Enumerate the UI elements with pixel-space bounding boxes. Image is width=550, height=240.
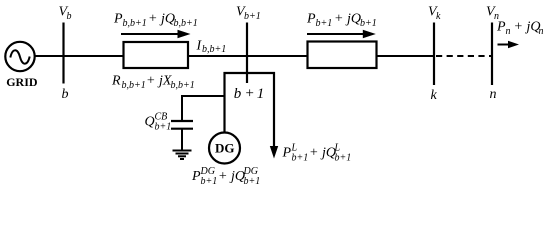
capacitor CB plates bbox=[171, 121, 193, 129]
svg-text:b+1: b+1 bbox=[316, 18, 333, 29]
svg-text:b: b bbox=[62, 87, 69, 102]
DG source (distributed generator) bbox=[209, 133, 240, 164]
svg-text:k: k bbox=[431, 88, 438, 103]
svg-text:R: R bbox=[111, 74, 121, 89]
svg-text:b: b bbox=[234, 86, 242, 102]
power flow arrow P_b,b+1 bbox=[121, 30, 191, 39]
svg-text:b+1: b+1 bbox=[292, 153, 309, 164]
label V_n bbox=[486, 5, 499, 22]
svg-text:P: P bbox=[282, 146, 292, 161]
svg-text:b+1: b+1 bbox=[335, 153, 352, 164]
svg-text:k: k bbox=[436, 11, 441, 22]
svg-text:n: n bbox=[506, 26, 511, 37]
wire: left drop from bar to DG bbox=[223, 72, 225, 132]
label I_b,b+1 (current) bbox=[196, 39, 227, 56]
svg-text:+: + bbox=[245, 86, 255, 102]
wire: grid to impedance block 1 (through bus b) bbox=[35, 55, 124, 57]
label P_b,b+1 + jQ_b,b+1 bbox=[113, 12, 198, 30]
svg-text:+ jQ: + jQ bbox=[218, 169, 245, 184]
svg-text:P: P bbox=[306, 12, 316, 27]
label P_L_b+1 + jQ_L_b+1 bbox=[282, 143, 352, 164]
connection bar at bus b+1 bbox=[224, 72, 276, 74]
svg-text:b,b+1: b,b+1 bbox=[174, 18, 198, 29]
svg-text:+ jQ: + jQ bbox=[309, 146, 336, 161]
svg-text:b,b+1: b,b+1 bbox=[171, 80, 195, 91]
svg-text:b+1: b+1 bbox=[244, 176, 261, 187]
svg-text:b: b bbox=[67, 11, 72, 22]
label V_b+1 bbox=[236, 5, 261, 22]
svg-text:b+1: b+1 bbox=[201, 176, 218, 187]
svg-text:P: P bbox=[113, 12, 123, 27]
impedance block 1 (line b to b+1) bbox=[124, 42, 189, 68]
svg-text:+ jQ: + jQ bbox=[148, 12, 175, 27]
svg-text:DG: DG bbox=[215, 140, 235, 155]
wire: block2 to bus k bbox=[377, 55, 435, 57]
svg-text:b,b+1: b,b+1 bbox=[123, 18, 147, 29]
svg-text:GRID: GRID bbox=[6, 75, 38, 89]
label P_n + jQ_n bbox=[496, 20, 544, 38]
label V_b bbox=[59, 5, 72, 22]
label Q_CB_b+1 bbox=[145, 112, 172, 133]
dashed wire: bus k to bus n bbox=[436, 55, 491, 57]
wire: capacitor branch bbox=[182, 96, 225, 121]
svg-text:b,b+1: b,b+1 bbox=[122, 80, 146, 91]
svg-text:+ jQ: + jQ bbox=[514, 20, 541, 35]
wire: block1 to block2 (through bus b+1) bbox=[188, 55, 308, 57]
AC source GRID (circle with sine) bbox=[5, 42, 34, 71]
wire: capacitor to ground bbox=[181, 129, 183, 151]
impedance block 2 (line b+1 onwards) bbox=[308, 42, 377, 69]
svg-text:b+1: b+1 bbox=[360, 18, 377, 29]
svg-text:b+1: b+1 bbox=[244, 11, 261, 22]
svg-text:P: P bbox=[191, 169, 201, 184]
svg-text:b,b+1: b,b+1 bbox=[202, 44, 226, 55]
svg-text:Q: Q bbox=[145, 115, 155, 130]
load arrow at bus b+1 bbox=[270, 72, 278, 159]
svg-text:P: P bbox=[496, 20, 506, 35]
arrow P_n (load at bus n) bbox=[498, 41, 520, 48]
svg-text:n: n bbox=[490, 87, 497, 102]
ground bbox=[173, 151, 192, 160]
svg-text:b+1: b+1 bbox=[155, 122, 172, 133]
label P_DG_b+1 + jQ_DG_b+1 bbox=[191, 166, 260, 187]
bus n bbox=[491, 23, 493, 86]
label P_b+1 + jQ_b+1 bbox=[306, 12, 377, 30]
svg-text:1: 1 bbox=[257, 86, 265, 102]
power flow arrow P_b+1 bbox=[307, 30, 376, 39]
label b+1 (bus name) bbox=[234, 86, 264, 103]
bus k bbox=[433, 23, 435, 86]
bus b+1 bbox=[246, 23, 248, 84]
label R_b,b+1 + jX_b,b+1 bbox=[111, 74, 195, 92]
svg-text:+ jX: + jX bbox=[146, 74, 172, 89]
svg-text:+ jQ: + jQ bbox=[334, 12, 361, 27]
label V_k bbox=[428, 5, 441, 22]
svg-text:n: n bbox=[539, 26, 544, 37]
bus b bbox=[62, 23, 64, 84]
